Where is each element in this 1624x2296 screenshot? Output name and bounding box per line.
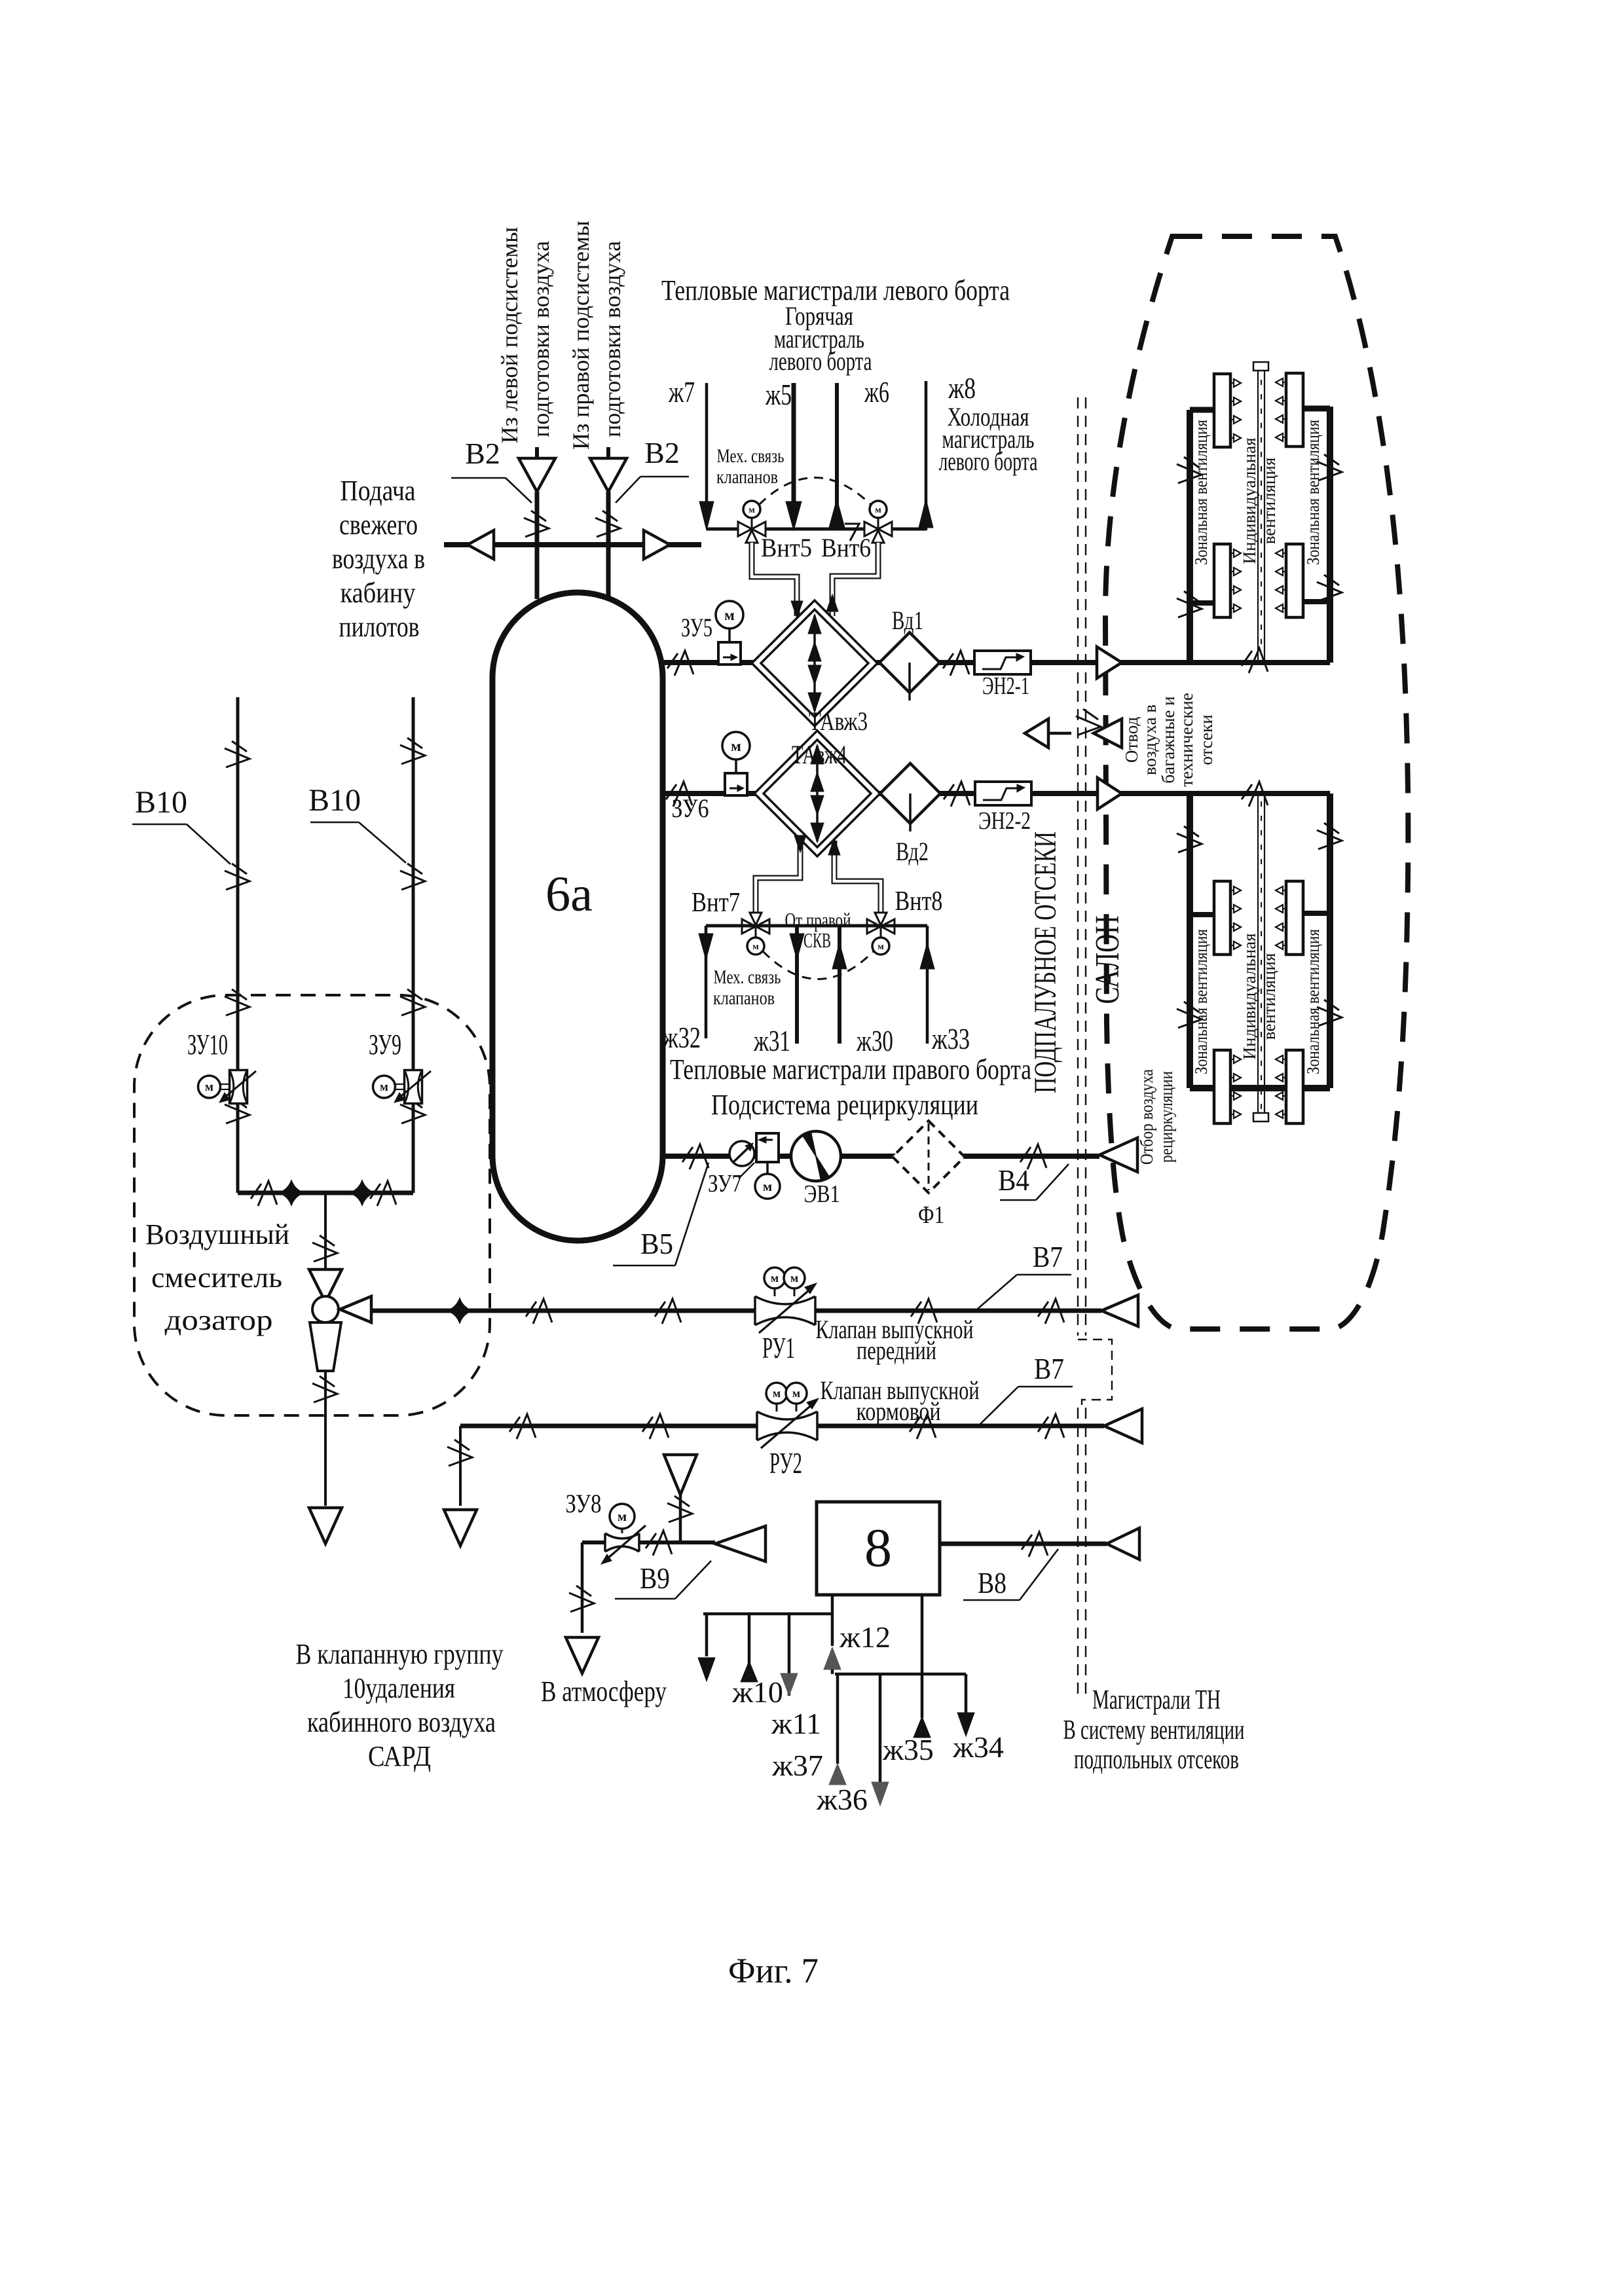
svg-text:м: м bbox=[790, 1271, 798, 1285]
wire ж5 line bbox=[792, 383, 796, 504]
arrow ж37 up (grey) bbox=[829, 1764, 846, 1785]
outlet triangle B9 drop bbox=[566, 1637, 599, 1673]
bulkhead double dashed line (ПОДПАЛУБНОЕ ОТСЕКИ boundary) bbox=[1077, 397, 1079, 1336]
heat exchanger ТАвж3 (double diamond) bbox=[752, 600, 877, 726]
wire mixer connector bbox=[238, 1191, 413, 1195]
frame upper network right vertical bbox=[1327, 407, 1333, 663]
wire B8 line bbox=[940, 1542, 1107, 1546]
ticks on mixer connector bbox=[251, 1181, 277, 1206]
outlet triangle below mixer bbox=[309, 1508, 342, 1544]
svg-text:м: м bbox=[773, 1387, 781, 1400]
wire hot header collector bbox=[707, 528, 926, 531]
svg-text:В4: В4 bbox=[998, 1163, 1029, 1197]
funnel B9 outlet bbox=[715, 1526, 766, 1561]
svg-text:САРД: САРД bbox=[368, 1740, 431, 1772]
svg-text:ж36: ж36 bbox=[816, 1783, 868, 1816]
svg-text:Индивидуальная: Индивидуальная bbox=[1240, 437, 1259, 564]
svg-text:м: м bbox=[752, 942, 759, 952]
wire left inlet pipe stub bbox=[535, 447, 539, 458]
wire ж30 line bbox=[838, 926, 841, 1044]
arrow atm down bbox=[698, 1658, 715, 1681]
frame upper network mid stubs bbox=[1190, 600, 1217, 606]
svg-text:Из левой подсистемы: Из левой подсистемы bbox=[496, 227, 523, 444]
junction star on РУ1 line bbox=[449, 1300, 471, 1322]
svg-text:Ф1: Ф1 bbox=[918, 1201, 944, 1229]
svg-text:6а: 6а bbox=[545, 867, 593, 922]
arrow ж5 down bbox=[786, 501, 802, 530]
funnel B2 left (inlet) bbox=[519, 458, 555, 492]
svg-text:Тепловые магистрали правого бо: Тепловые магистрали правого борта bbox=[670, 1053, 1031, 1085]
svg-text:воздуха в: воздуха в bbox=[1140, 704, 1160, 775]
svg-text:м: м bbox=[875, 505, 881, 515]
arrow ж12 up (grey) bbox=[824, 1647, 841, 1669]
svg-text:В клапанную группу: В клапанную группу bbox=[296, 1638, 504, 1670]
manifold lower-left-top bbox=[1214, 881, 1230, 955]
wire drop from РУ2 line bbox=[459, 1426, 462, 1506]
svg-text:Зональная вентиляция: Зональная вентиляция bbox=[1303, 420, 1323, 565]
svg-text:ЭН2-2: ЭН2-2 bbox=[978, 807, 1031, 835]
svg-text:Зональная вентиляция: Зональная вентиляция bbox=[1191, 420, 1211, 565]
arrow ж35 up bbox=[913, 1717, 931, 1738]
wire B9 left drop bbox=[581, 1542, 584, 1633]
svg-text:ж32: ж32 bbox=[662, 1021, 701, 1054]
tick on B9 up branch bbox=[667, 1496, 692, 1522]
svg-text:ж33: ж33 bbox=[931, 1022, 970, 1055]
svg-text:ж11: ж11 bbox=[771, 1707, 821, 1740]
svg-text:ПОДПАЛУБНОЕ ОТСЕКИ: ПОДПАЛУБНОЕ ОТСЕКИ bbox=[1028, 831, 1063, 1093]
svg-text:ж30: ж30 bbox=[856, 1024, 893, 1057]
funnel to pilots cabin (left) bbox=[468, 530, 494, 559]
wire right inlet pipe bbox=[606, 492, 611, 597]
svg-text:В10: В10 bbox=[308, 783, 361, 818]
wire ж8 line bbox=[925, 381, 928, 530]
heater ЭН2-1 bbox=[974, 651, 1031, 674]
svg-text:Воздушный: Воздушный bbox=[145, 1218, 289, 1250]
wire B9 up branch bbox=[679, 1495, 682, 1542]
funnel into cabin network line1 bbox=[1097, 647, 1122, 678]
valve ЗУ5 with motor bbox=[718, 642, 741, 665]
arrow ж6 up bbox=[829, 499, 845, 528]
tick on line3 after Ф1 bbox=[1020, 1144, 1046, 1169]
svg-text:В5: В5 bbox=[640, 1227, 673, 1260]
wire B10 left line bbox=[236, 697, 240, 1193]
tick on отвод funnel bbox=[1076, 709, 1101, 735]
svg-text:В атмосферу: В атмосферу bbox=[541, 1675, 667, 1707]
ticks on upper frame verticals bbox=[1177, 457, 1202, 483]
wire right inlet pipe stub bbox=[606, 447, 610, 458]
arrow on pipe from ТАвж3 bbox=[826, 594, 838, 611]
fuselage (САЛОН) dashed boundary outline bbox=[1105, 236, 1408, 1329]
svg-text:ЗУ8: ЗУ8 bbox=[566, 1489, 602, 1518]
heat exchanger ТАвж4 (double diamond) bbox=[754, 731, 880, 856]
valve Внт5 (3-way with motor) bbox=[738, 522, 752, 536]
manifold upper-right-bottom bbox=[1286, 544, 1303, 617]
wire box8 left drop lower bbox=[831, 1669, 834, 1674]
moisture separator Вд1 (diamond) bbox=[879, 632, 940, 693]
svg-text:клапанов: клапанов bbox=[716, 466, 778, 488]
funnel up on B9 branch bbox=[664, 1455, 697, 1495]
svg-text:Отвод: Отвод bbox=[1122, 717, 1141, 763]
svg-text:Индивидуальная: Индивидуальная bbox=[1240, 933, 1259, 1059]
svg-text:РУ1: РУ1 bbox=[762, 1331, 795, 1364]
mixer funnel bbox=[309, 1269, 342, 1302]
arrow ж32 down bbox=[699, 934, 713, 960]
funnel to cabin right branch bbox=[644, 530, 670, 559]
svg-text:подпольных отсеков: подпольных отсеков bbox=[1074, 1745, 1239, 1775]
svg-text:левого борта: левого борта bbox=[769, 346, 872, 376]
svg-text:Внт7: Внт7 bbox=[692, 888, 740, 918]
svg-text:ЗУ7: ЗУ7 bbox=[708, 1170, 742, 1197]
svg-text:м: м bbox=[763, 1178, 772, 1194]
svg-text:Вд2: Вд2 bbox=[896, 837, 929, 866]
wire fresh-air supply line bbox=[444, 542, 701, 547]
svg-text:ж5: ж5 bbox=[765, 378, 792, 411]
pipe Внт6 to ТАвж3 (double line) bbox=[832, 543, 878, 616]
svg-text:ЗУ10: ЗУ10 bbox=[187, 1029, 228, 1061]
wire ж6 line bbox=[835, 383, 839, 530]
fan ЭВ1 bbox=[791, 1131, 841, 1181]
ТАвж3 internal arrows bbox=[813, 615, 816, 711]
arrow on pipe to Внт7 bbox=[794, 835, 806, 852]
svg-text:технические: технические bbox=[1177, 693, 1196, 787]
tick on mixer drop bbox=[312, 1235, 337, 1262]
svg-text:Подсистема рециркуляции: Подсистема рециркуляции bbox=[711, 1089, 978, 1121]
svg-text:8: 8 bbox=[864, 1518, 892, 1578]
junction star left bbox=[280, 1182, 303, 1204]
ТАвж4 internal arrows bbox=[816, 746, 819, 841]
wire main line 2 (to салон) bbox=[663, 791, 1330, 796]
svg-text:воздуха в: воздуха в bbox=[332, 543, 425, 575]
funnel Отбор воздуха рециркуляции bbox=[1099, 1138, 1137, 1172]
heater ЭН2-2 bbox=[975, 782, 1031, 805]
individual vent rail upper bbox=[1257, 371, 1259, 660]
wire drop ж11 bbox=[788, 1614, 791, 1696]
wire ж33 line bbox=[926, 926, 929, 1044]
wire РУ2 line bbox=[460, 1424, 1104, 1429]
junction star right bbox=[351, 1182, 373, 1204]
svg-text:Зональная вентиляция: Зональная вентиляция bbox=[1303, 929, 1323, 1074]
wire branch1 horizontal bbox=[703, 1613, 832, 1616]
valve РУ2 (outlet, two motors) bbox=[757, 1412, 817, 1440]
manifold upper-left-bottom bbox=[1214, 544, 1230, 617]
individual vent rail lower bbox=[1257, 796, 1259, 1113]
svg-text:отсеки: отсеки bbox=[1196, 714, 1216, 765]
svg-text:10удаления: 10удаления bbox=[342, 1672, 455, 1704]
svg-text:подготовки воздуха: подготовки воздуха bbox=[599, 241, 625, 437]
svg-text:В систему вентиляции: В систему вентиляции bbox=[1063, 1715, 1245, 1745]
svg-text:кабину: кабину bbox=[341, 577, 416, 609]
frame upper network left vertical bbox=[1187, 410, 1193, 663]
svg-text:свежего: свежего bbox=[339, 509, 418, 541]
svg-text:ЗУ6: ЗУ6 bbox=[672, 793, 709, 823]
svg-text:кормовой: кормовой bbox=[857, 1396, 941, 1426]
arrow ж34 down bbox=[957, 1713, 974, 1736]
svg-text:левого борта: левого борта bbox=[939, 446, 1038, 476]
wire left inlet pipe bbox=[535, 492, 540, 599]
tick below mixer bbox=[312, 1376, 337, 1402]
svg-text:ТАвж4: ТАвж4 bbox=[792, 740, 847, 769]
wire recirculation line bbox=[663, 1154, 1099, 1159]
svg-text:Фиг. 7: Фиг. 7 bbox=[728, 1951, 819, 1990]
wire drop ж35 bbox=[921, 1595, 924, 1718]
arrow ж11 down (grey) bbox=[781, 1673, 798, 1696]
svg-text:ж7: ж7 bbox=[668, 375, 695, 409]
svg-text:ж31: ж31 bbox=[753, 1024, 790, 1057]
ticks on B10 right bbox=[400, 738, 425, 764]
manifold lower-right-top bbox=[1286, 881, 1303, 955]
svg-text:м: м bbox=[380, 1080, 388, 1094]
wire box8 left drop bbox=[831, 1595, 834, 1646]
svg-text:ЭВ1: ЭВ1 bbox=[804, 1180, 840, 1208]
check valve before ЗУ7 bbox=[729, 1141, 754, 1166]
wire below mixer bbox=[324, 1371, 327, 1506]
frame lower network mid stubs bbox=[1190, 912, 1217, 917]
svg-text:Магистрали ТН: Магистрали ТН bbox=[1092, 1685, 1221, 1715]
valve Внт7 (3-way with motor) bbox=[742, 919, 756, 934]
svg-text:В7: В7 bbox=[1033, 1240, 1063, 1273]
funnel выпуск кормовой bbox=[1104, 1409, 1142, 1443]
tick on line1 before ЭН2-1 bbox=[943, 651, 969, 676]
wire B10 right line bbox=[412, 697, 415, 1193]
pipe ТАвж4 to Внт8 (double line) bbox=[834, 841, 881, 912]
pipe Внт5 to ТАвж3 (double line) bbox=[752, 543, 797, 616]
manifold upper-left-top (Зональная) bbox=[1214, 374, 1230, 447]
valve ЗУ6 with motor bbox=[725, 773, 747, 795]
funnel from mixer to РУ1 line bbox=[340, 1296, 371, 1322]
bulkhead dashed detour around B7 outlets bbox=[1078, 1339, 1112, 1408]
svg-text:В2: В2 bbox=[644, 436, 680, 469]
svg-text:Мех. связь: Мех. связь bbox=[714, 966, 781, 988]
valve ЗУ7 with motor below bbox=[756, 1133, 779, 1162]
tick on B9 left drop bbox=[569, 1586, 594, 1612]
wire drop ж10 bbox=[748, 1614, 751, 1680]
arrow ж36 down (grey) bbox=[872, 1782, 889, 1806]
svg-text:В9: В9 bbox=[640, 1561, 670, 1595]
svg-text:ж6: ж6 bbox=[864, 375, 889, 409]
wire main line 1 (to baggage compartments) bbox=[663, 660, 1330, 665]
mixer cone bbox=[310, 1322, 341, 1371]
dashed enclosure of air mixer-doser bbox=[134, 995, 490, 1415]
dashed arc mech link of Внт5-Внт6 bbox=[759, 478, 871, 505]
svg-text:багажные и: багажные и bbox=[1158, 696, 1178, 783]
frame lower network bottom bbox=[1190, 1085, 1330, 1091]
ticks on B10 left bbox=[225, 741, 249, 767]
svg-text:СКВ: СКВ bbox=[803, 928, 831, 952]
tick 7-mark near Внт6 bbox=[845, 524, 859, 541]
unit 8 (distribution box) bbox=[817, 1502, 940, 1595]
wire drop ж36 bbox=[879, 1674, 882, 1782]
wire drop ж34 bbox=[965, 1674, 968, 1713]
svg-text:В8: В8 bbox=[978, 1566, 1006, 1599]
wire drop ж37 bbox=[836, 1674, 840, 1764]
svg-text:дозатор: дозатор bbox=[165, 1304, 273, 1336]
arrow on pipe to Внт8 bbox=[828, 838, 840, 855]
svg-text:РУ2: РУ2 bbox=[769, 1446, 802, 1480]
manifold lower-right-bottom bbox=[1286, 1050, 1303, 1123]
svg-text:м: м bbox=[877, 942, 884, 952]
svg-text:вентиляция: вентиляция bbox=[1259, 458, 1279, 544]
arrow ж31 down bbox=[790, 934, 804, 960]
frame lower network right vertical bbox=[1327, 793, 1333, 1088]
wire ж31 line bbox=[795, 926, 799, 1044]
funnel отвод воздуха (at fuselage) bbox=[1094, 719, 1122, 748]
valve ЗУ8 (with motor) bbox=[605, 1533, 639, 1552]
funnel выпуск передний bbox=[1101, 1295, 1138, 1326]
wire mixer drop bbox=[324, 1193, 327, 1269]
svg-text:клапанов: клапанов bbox=[713, 987, 775, 1009]
svg-text:ж35: ж35 bbox=[882, 1733, 934, 1766]
wire ж7 line bbox=[705, 383, 709, 505]
arrow on pipe into ТАвж3 bbox=[791, 601, 803, 618]
svg-text:Отбор воздуха: Отбор воздуха bbox=[1137, 1069, 1156, 1165]
ticks on lower frame verticals bbox=[1177, 826, 1202, 852]
svg-text:м: м bbox=[771, 1271, 779, 1285]
arrow ж8 up bbox=[919, 499, 933, 528]
tick on right inlet pipe bbox=[595, 511, 620, 537]
svg-text:ж37: ж37 bbox=[771, 1749, 823, 1782]
ticks on РУ1 line bbox=[526, 1299, 552, 1324]
pipe ТАвж4 to Внт7 (double line) bbox=[756, 841, 800, 912]
svg-text:кабинного воздуха: кабинного воздуха bbox=[307, 1706, 496, 1738]
svg-text:ЗУ9: ЗУ9 bbox=[369, 1029, 401, 1061]
tick on line3 after vessel bbox=[682, 1144, 709, 1169]
wire ж32 line bbox=[705, 926, 708, 1038]
wire РУ1 line bbox=[371, 1309, 1101, 1313]
svg-text:В10: В10 bbox=[135, 785, 187, 820]
svg-text:смеситель: смеситель bbox=[151, 1262, 282, 1294]
funnel отвод воздуха (left) bbox=[1025, 719, 1048, 748]
svg-text:Зональная вентиляция: Зональная вентиляция bbox=[1191, 929, 1211, 1074]
wire branch2 horizontal bbox=[835, 1673, 966, 1676]
svg-text:Внт6: Внт6 bbox=[821, 533, 871, 562]
valve Внт6 (3-way with motor) bbox=[864, 522, 878, 536]
svg-text:Внт8: Внт8 bbox=[895, 886, 943, 917]
svg-text:м: м bbox=[724, 607, 735, 623]
wire drop to ж-atm bbox=[705, 1614, 709, 1656]
tick at rail on line2 bbox=[1242, 782, 1268, 807]
svg-text:САЛОН: САЛОН bbox=[1089, 916, 1126, 1004]
tick on B8 line bbox=[1022, 1532, 1048, 1557]
funnel B8 outlet bbox=[1107, 1528, 1139, 1559]
tick on РУ2 drop bbox=[447, 1440, 472, 1466]
tick at rail on line1 bbox=[1242, 648, 1268, 673]
svg-text:Внт5: Внт5 bbox=[761, 533, 812, 562]
filter Ф1 (dashed diamond) bbox=[893, 1121, 965, 1193]
tick on line2 after vessel bbox=[666, 782, 692, 807]
svg-text:ж8: ж8 bbox=[948, 371, 976, 405]
funnel B2 right (inlet) bbox=[590, 458, 627, 492]
outlet triangle РУ2 drop bbox=[444, 1510, 477, 1546]
manifold upper-right-top bbox=[1286, 373, 1303, 446]
svg-text:Из правой подсистемы: Из правой подсистемы bbox=[568, 221, 594, 450]
valve ЗУ9 (with motor) bbox=[405, 1070, 422, 1104]
svg-text:вентиляция: вентиляция bbox=[1259, 953, 1279, 1040]
tick on line1 after vessel bbox=[667, 651, 693, 676]
svg-text:ж10: ж10 bbox=[731, 1675, 783, 1709]
tick on B9 line bbox=[646, 1531, 672, 1556]
valve ЗУ10 (with motor) bbox=[230, 1070, 248, 1104]
mixer circle bbox=[312, 1296, 339, 1322]
svg-text:Подача: Подача bbox=[341, 475, 416, 507]
svg-text:рециркуляции: рециркуляции bbox=[1156, 1071, 1176, 1163]
svg-text:м: м bbox=[731, 738, 741, 754]
svg-text:В2: В2 bbox=[465, 437, 500, 470]
svg-text:В7: В7 bbox=[1034, 1352, 1064, 1385]
wire right-board collector bbox=[706, 924, 927, 928]
frame upper network top stubs bbox=[1190, 407, 1217, 413]
svg-text:м: м bbox=[618, 1508, 627, 1524]
svg-text:ж34: ж34 bbox=[952, 1730, 1004, 1764]
svg-text:ЗУ5: ЗУ5 bbox=[681, 613, 712, 642]
svg-text:передний: передний bbox=[857, 1336, 936, 1365]
tick on left inlet pipe bbox=[524, 511, 549, 537]
dashed arc mech link of Внт7-Внт8 bbox=[763, 951, 874, 979]
moisture separator Вд2 (diamond) bbox=[880, 763, 940, 824]
svg-text:Вд1: Вд1 bbox=[892, 606, 923, 635]
arrow ж7 down bbox=[699, 501, 714, 530]
svg-text:м: м bbox=[792, 1387, 800, 1400]
wire B9 line bbox=[582, 1540, 715, 1544]
svg-text:подготовки воздуха: подготовки воздуха bbox=[528, 241, 554, 437]
valve Внт8 (3-way with motor) bbox=[867, 919, 881, 934]
svg-text:ЭН2-1: ЭН2-1 bbox=[982, 672, 1029, 700]
manifold lower-left-bottom bbox=[1214, 1050, 1230, 1123]
frame lower network left vertical bbox=[1187, 793, 1193, 1088]
funnel into cabin network line2 bbox=[1098, 778, 1122, 809]
valve РУ1 (outlet, two motors) bbox=[755, 1296, 815, 1325]
svg-text:пилотов: пилотов bbox=[339, 611, 420, 643]
vessel 6а (mix chamber) bbox=[492, 592, 663, 1241]
arrow ж30 up bbox=[832, 943, 847, 969]
svg-text:Мех. связь: Мех. связь bbox=[717, 445, 784, 467]
arrow ж33 up bbox=[920, 943, 934, 969]
tick on line2 before ЭН2-2 bbox=[944, 782, 970, 807]
ticks on РУ2 line bbox=[509, 1414, 536, 1439]
svg-text:м: м bbox=[748, 505, 755, 515]
arrow ж10 up bbox=[741, 1661, 758, 1682]
svg-text:м: м bbox=[205, 1080, 213, 1094]
svg-text:ж12: ж12 bbox=[839, 1620, 891, 1654]
